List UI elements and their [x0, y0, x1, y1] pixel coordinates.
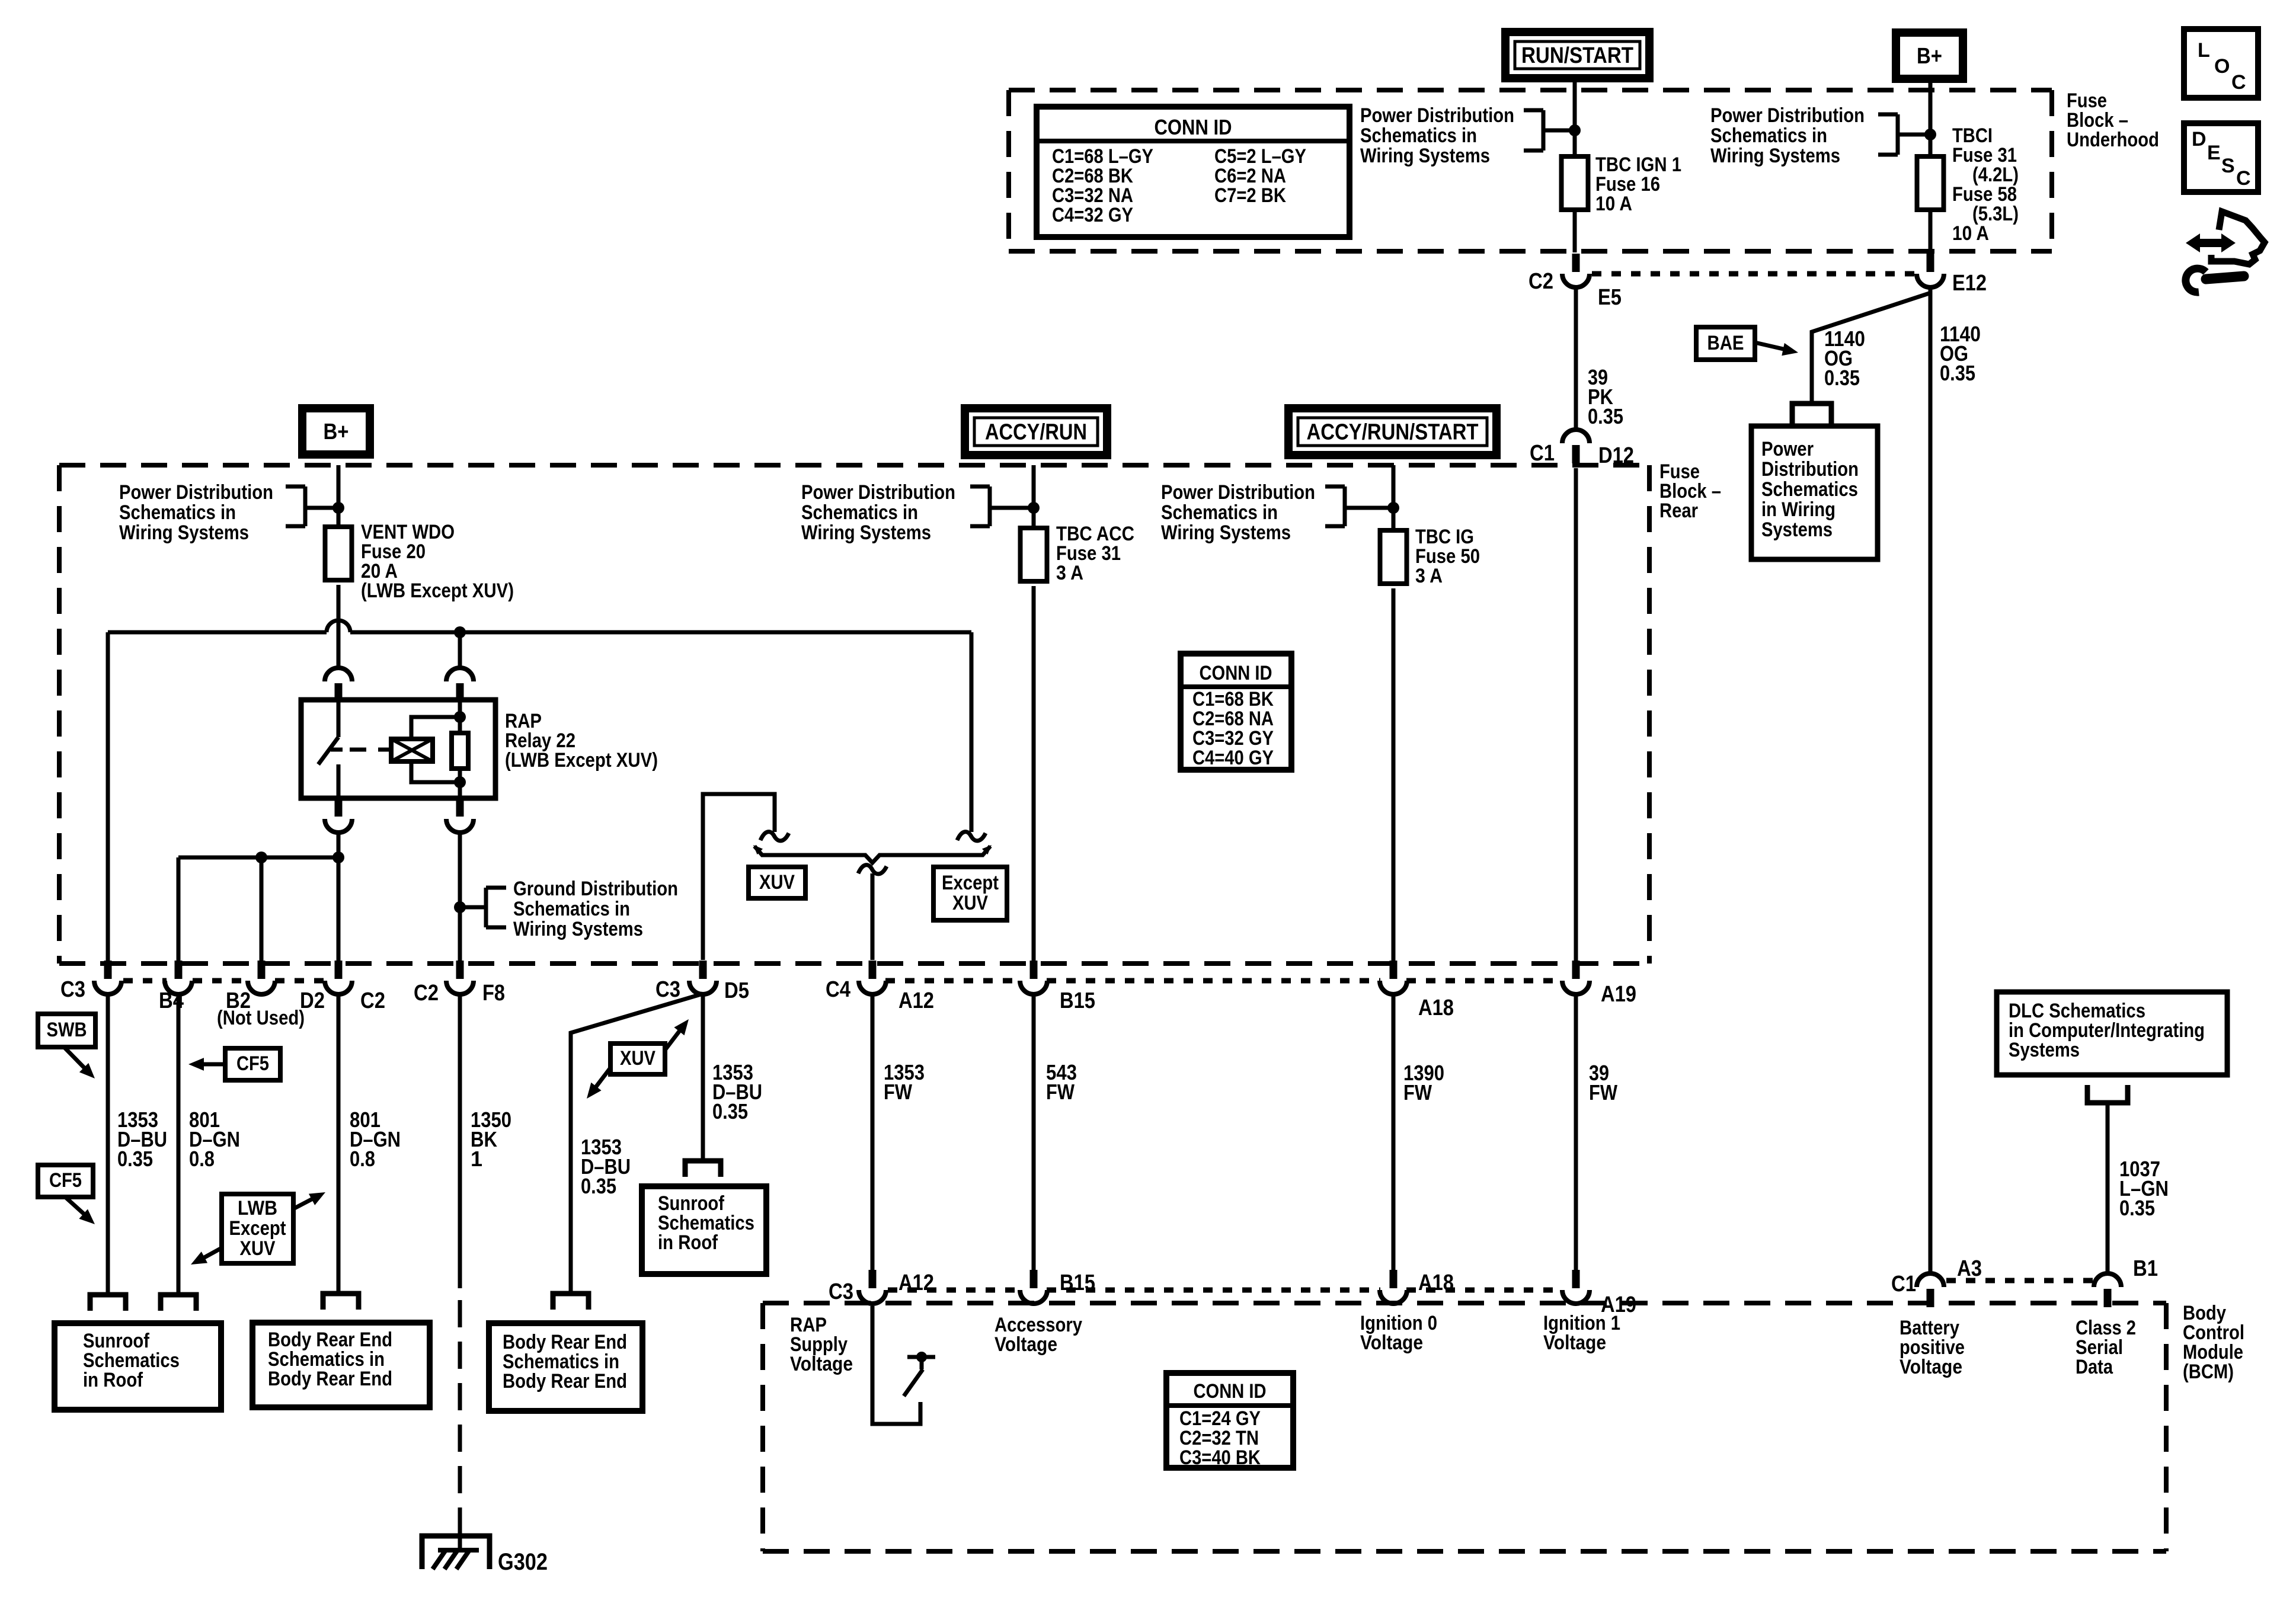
- wire ACCY/RUN/START col inside rear block: [1574, 468, 1578, 965]
- CONN ID table rear: [1181, 654, 1291, 770]
- connector bracket body rear end 2: [553, 1294, 589, 1310]
- ESI icon double arrow: [2186, 233, 2236, 252]
- relay coil top loop: [411, 717, 460, 739]
- svg-text:ACCY/RUN: ACCY/RUN: [985, 420, 1087, 445]
- svg-text:3 A: 3 A: [1056, 562, 1083, 584]
- svg-text:(LWB Except XUV): (LWB Except XUV): [505, 749, 658, 772]
- wire TBC IG fuse down to A18: [1392, 588, 1396, 965]
- label SWB box: [38, 1014, 95, 1047]
- connector row rear dotted line: [123, 978, 167, 984]
- box body rear end schematics 1: [252, 1323, 430, 1407]
- connector pin B15 row3: [1030, 1270, 1038, 1288]
- svg-text:Power Distribution: Power Distribution: [1360, 104, 1514, 127]
- svg-text:A18: A18: [1418, 1270, 1454, 1295]
- svg-text:Rear: Rear: [1659, 500, 1698, 522]
- svg-text:Body Rear End: Body Rear End: [503, 1370, 627, 1393]
- arrow LWB up right: [293, 1196, 318, 1209]
- DESC legend box: [2184, 123, 2258, 192]
- wire RUN/START down to fuse 16: [1573, 78, 1577, 156]
- connector pin B15 row2: [1030, 961, 1038, 979]
- svg-text:C4: C4: [826, 977, 850, 1002]
- relay switch: [337, 700, 341, 737]
- wire fuse16 to connector C2-E5: [1573, 210, 1577, 252]
- svg-text:B+: B+: [324, 420, 349, 444]
- svg-text:F8: F8: [482, 981, 505, 1006]
- fuse F50 TBC IG: [1380, 530, 1407, 584]
- hook xuv: [760, 832, 789, 841]
- connector row underhood dotted line: [1592, 271, 1914, 277]
- wire C3-B4 column down: [106, 632, 110, 965]
- svg-text:Wiring Systems: Wiring Systems: [1710, 145, 1840, 167]
- svg-text:XUV: XUV: [952, 892, 988, 914]
- svg-text:FW: FW: [1046, 1080, 1075, 1104]
- svg-text:0.35: 0.35: [712, 1099, 748, 1124]
- svg-text:Schematics in: Schematics in: [1360, 124, 1477, 147]
- svg-text:D5: D5: [724, 978, 749, 1003]
- svg-text:(Not Used): (Not Used): [217, 1007, 305, 1029]
- svg-text:Wiring Systems: Wiring Systems: [119, 521, 249, 544]
- label CF5 upper box: [225, 1048, 280, 1080]
- svg-text:Ground Distribution: Ground Distribution: [513, 878, 678, 900]
- svg-text:CONN ID: CONN ID: [1194, 1380, 1267, 1403]
- svg-text:Except: Except: [942, 872, 999, 894]
- connector E12: [1927, 254, 1934, 272]
- wire D2 branch down: [260, 857, 264, 965]
- svg-text:Schematics in: Schematics in: [1161, 501, 1278, 524]
- wire 1353 D-BU column A: [106, 994, 110, 1294]
- wire B15 row2 to row3: [1032, 994, 1036, 1270]
- bracket to ACCY/RUN/START wire: [1325, 485, 1345, 489]
- svg-text:Wiring Systems: Wiring Systems: [1161, 521, 1291, 544]
- svg-text:E12: E12: [1952, 271, 1987, 296]
- wire RAP switch: [872, 1306, 920, 1424]
- svg-text:C: C: [2236, 167, 2251, 190]
- box body rear end schematics 2: [489, 1323, 642, 1411]
- svg-text:Voltage: Voltage: [790, 1353, 853, 1375]
- wire except-xuv branch down: [970, 632, 974, 832]
- relay link dashed: [350, 748, 389, 752]
- box DLC schematics: [1997, 992, 2227, 1075]
- label Except XUV box: [933, 867, 1007, 920]
- svg-text:Distribution: Distribution: [1761, 458, 1859, 481]
- svg-text:Voltage: Voltage: [1900, 1356, 1962, 1378]
- wire 1037 L-GN: [2106, 1105, 2110, 1274]
- connector on power distribution box: [1792, 404, 1831, 426]
- connector bracket body rear end 1: [323, 1294, 359, 1310]
- RAP switch bar and dot: [907, 1355, 935, 1359]
- connector C1 pin D12: [1572, 445, 1580, 463]
- svg-text:0.8: 0.8: [189, 1147, 215, 1171]
- CONN ID table BCM: [1166, 1373, 1293, 1468]
- svg-text:C: C: [2231, 71, 2246, 94]
- svg-text:A19: A19: [1601, 982, 1636, 1007]
- BCM dashed outline: [763, 1301, 2166, 1305]
- wire TBC ACC fuse down to B15: [1032, 586, 1036, 965]
- arrow CF5 to B2 wire: [196, 1062, 225, 1067]
- svg-text:Schematics: Schematics: [1761, 478, 1858, 501]
- connector pin A19 row2: [1572, 961, 1580, 979]
- connector bracket sunroof 2: [685, 1161, 721, 1177]
- power label ACCY/RUN/START: [1288, 408, 1496, 455]
- relay top pin connectors: [335, 683, 343, 702]
- connector C2 pin E5: [1572, 254, 1580, 272]
- ESI icon wrench: [2186, 268, 2206, 292]
- label XUV with arrows: [610, 1044, 665, 1074]
- svg-text:C3: C3: [60, 977, 85, 1002]
- svg-text:Systems: Systems: [2009, 1039, 2080, 1061]
- hook except xuv: [957, 832, 986, 841]
- wire 39 PK 0.35: [1574, 287, 1578, 430]
- svg-text:BAE: BAE: [1707, 332, 1744, 354]
- svg-text:Wiring Systems: Wiring Systems: [801, 521, 931, 544]
- power label B+ rear: [302, 408, 370, 454]
- connector bracket sunroof wire A: [90, 1295, 126, 1311]
- svg-text:XUV: XUV: [240, 1237, 276, 1260]
- svg-text:A18: A18: [1418, 996, 1454, 1020]
- wire TBCI fuse to connector E12: [1929, 210, 1933, 252]
- wire B+ rear to vent wdo fuse: [337, 465, 341, 527]
- arrow SWB to wire: [64, 1047, 90, 1074]
- wire 1140 OG 0.35 to BCM: [1929, 287, 1933, 1273]
- svg-text:0.35: 0.35: [581, 1174, 616, 1198]
- connector bracket sunroof wire B: [161, 1295, 196, 1311]
- svg-text:C4=40 GY: C4=40 GY: [1192, 747, 1274, 769]
- svg-text:SWB: SWB: [47, 1019, 87, 1041]
- relay bottom pin connectors: [335, 798, 343, 817]
- svg-text:Voltage: Voltage: [994, 1333, 1057, 1356]
- CONN ID table underhood: [1037, 107, 1350, 237]
- connector row BCM dotted line: [888, 1288, 1021, 1293]
- LOC legend box: [2184, 29, 2258, 98]
- connector C3 pin D5: [699, 961, 707, 979]
- svg-text:XUV: XUV: [759, 871, 795, 894]
- wire ACCY/RUN to TBC ACC fuse: [1032, 465, 1036, 528]
- connector C2 pin F8: [456, 961, 464, 979]
- svg-text:Power Distribution: Power Distribution: [801, 481, 955, 504]
- wire coil branch down to relay: [458, 632, 462, 668]
- svg-text:Data: Data: [2076, 1356, 2113, 1378]
- box sunroof schematics in roof 2: [642, 1186, 766, 1274]
- svg-text:Systems: Systems: [1761, 518, 1833, 541]
- svg-text:FW: FW: [1589, 1080, 1617, 1105]
- svg-text:3 A: 3 A: [1415, 565, 1443, 587]
- box sunroof schematics in roof left: [55, 1323, 221, 1410]
- connector pin A18 row2: [1390, 961, 1398, 979]
- svg-text:(LWB Except XUV): (LWB Except XUV): [361, 580, 514, 602]
- svg-text:in Roof: in Roof: [83, 1369, 143, 1391]
- svg-text:Schematics in: Schematics in: [1710, 124, 1827, 147]
- fuse block rear dashed outline: [59, 463, 1649, 468]
- wire D5 to sunroof 2: [701, 994, 705, 1160]
- bracket to B+ rear wire: [286, 485, 305, 489]
- svg-text:Schematics in: Schematics in: [513, 898, 630, 920]
- svg-text:0.35: 0.35: [1588, 404, 1623, 428]
- ground symbol G302: [422, 1536, 490, 1569]
- fuse F16 TBC IGN 1: [1562, 156, 1588, 210]
- svg-text:D: D: [2192, 128, 2207, 151]
- svg-text:in Wiring: in Wiring: [1761, 498, 1835, 521]
- svg-text:C3: C3: [655, 977, 680, 1002]
- fuse F31/F58 TBCI: [1917, 156, 1944, 210]
- bracket to ACCY/RUN wire: [970, 485, 990, 489]
- svg-text:A3: A3: [1957, 1256, 1982, 1281]
- svg-text:0.35: 0.35: [2119, 1196, 2155, 1220]
- arrow LWB down left: [198, 1248, 222, 1261]
- svg-text:0.8: 0.8: [350, 1147, 375, 1171]
- connector pin A18 row3: [1390, 1270, 1398, 1288]
- wire C4 to RAP row3: [871, 994, 875, 1270]
- box power distribution schematics in wiring systems: [1751, 426, 1878, 559]
- svg-text:C3=40 BK: C3=40 BK: [1179, 1446, 1261, 1469]
- relay coil bottom loop: [411, 761, 460, 782]
- svg-text:10 A: 10 A: [1952, 222, 1989, 245]
- svg-text:0.35: 0.35: [1940, 361, 1975, 385]
- wire relay switch out: [337, 832, 341, 965]
- junction dot ground distribution: [454, 901, 466, 913]
- svg-text:E: E: [2207, 142, 2221, 164]
- svg-text:Schematics in: Schematics in: [801, 501, 918, 524]
- wire 1350 BK column E: [458, 994, 462, 1288]
- svg-text:G302: G302: [498, 1549, 548, 1575]
- ESI icon outline: [2211, 212, 2265, 264]
- label CF5 lower box: [38, 1165, 93, 1197]
- svg-text:Wiring Systems: Wiring Systems: [513, 918, 643, 940]
- svg-text:Voltage: Voltage: [1360, 1331, 1423, 1354]
- connector pin D2: [258, 961, 266, 979]
- RAP switch blade: [904, 1369, 923, 1396]
- svg-text:C4=32 GY: C4=32 GY: [1052, 204, 1133, 226]
- svg-text:1: 1: [471, 1147, 482, 1171]
- connector bracket below DLC: [2087, 1085, 2128, 1103]
- svg-text:B1: B1: [2133, 1256, 2158, 1281]
- label BAE with arrow: [1696, 327, 1755, 360]
- svg-text:Except: Except: [229, 1217, 286, 1240]
- xuv merge brace: [754, 846, 990, 863]
- wire 801 D-GN column D: [337, 994, 341, 1292]
- bracket to RUN/START wire: [1524, 108, 1543, 113]
- svg-text:Wiring Systems: Wiring Systems: [1360, 145, 1490, 167]
- arrow CF5 lower to wire: [65, 1197, 90, 1219]
- svg-text:S: S: [2221, 155, 2235, 177]
- svg-text:0.35: 0.35: [1824, 366, 1860, 390]
- svg-text:L: L: [2198, 39, 2210, 62]
- svg-text:CONN ID: CONN ID: [1200, 662, 1272, 684]
- wire A18 row2 to row3: [1392, 994, 1396, 1270]
- svg-text:Power Distribution: Power Distribution: [119, 481, 273, 504]
- svg-text:C1: C1: [1891, 1272, 1916, 1297]
- wire 801 D-GN column B: [177, 994, 181, 1294]
- junction dots lower horizontal: [255, 852, 267, 863]
- svg-text:A12: A12: [898, 1270, 934, 1295]
- connector C1 pin A3: [1927, 1289, 1934, 1307]
- wire merge to C4: [871, 873, 875, 960]
- svg-text:10 A: 10 A: [1595, 193, 1632, 215]
- connector pin B1: [2104, 1289, 2112, 1307]
- fuse block underhood dashed outline: [1009, 88, 2052, 92]
- dotted line A3 to B1: [1946, 1278, 2093, 1283]
- svg-text:Power Distribution: Power Distribution: [1710, 104, 1865, 127]
- connector pin A19 row3: [1572, 1270, 1580, 1288]
- power label ACCY/RUN: [965, 408, 1107, 455]
- label LWB Except XUV box: [222, 1194, 293, 1263]
- svg-text:B15: B15: [1060, 1270, 1095, 1295]
- svg-text:O: O: [2214, 55, 2230, 78]
- wire B2 branch down: [177, 857, 181, 965]
- svg-text:C3: C3: [829, 1279, 853, 1304]
- svg-text:Power: Power: [1761, 438, 1814, 460]
- wire xuv diagonal: [571, 994, 703, 1292]
- relay RAP box: [301, 700, 495, 798]
- svg-text:ACCY/RUN/START: ACCY/RUN/START: [1307, 420, 1479, 445]
- wire main horizontal from vent wdo: [108, 630, 327, 635]
- bracket ground distribution: [486, 886, 506, 890]
- svg-text:XUV: XUV: [620, 1047, 655, 1070]
- svg-text:CF5: CF5: [49, 1169, 82, 1192]
- svg-text:CF5: CF5: [236, 1052, 269, 1075]
- svg-text:in Roof: in Roof: [658, 1231, 718, 1254]
- hook below merge: [858, 865, 887, 874]
- wire ACCY/RUN/START to TBC IG fuse: [1392, 465, 1396, 530]
- svg-text:A12: A12: [898, 988, 934, 1013]
- connector pin B2: [175, 961, 183, 979]
- wire D5 L-branch: [703, 794, 775, 960]
- wire B+ down to fuse 31/58: [1929, 79, 1933, 156]
- fuse F20 VENT WDO: [325, 527, 352, 580]
- svg-text:LWB: LWB: [238, 1197, 277, 1219]
- svg-text:C2: C2: [414, 981, 439, 1006]
- svg-text:Underhood: Underhood: [2067, 129, 2159, 151]
- power label RUN/START: [1505, 32, 1649, 78]
- relay coil: [391, 739, 433, 761]
- svg-text:FW: FW: [884, 1080, 912, 1104]
- svg-text:B+: B+: [1917, 44, 1942, 69]
- wire BAE branch diagonal: [1812, 293, 1929, 401]
- svg-text:Body Rear End: Body Rear End: [268, 1368, 392, 1390]
- wire relay coil return down: [458, 832, 462, 965]
- wire lower horizontal: [178, 856, 338, 860]
- power label B+ underhood: [1896, 33, 1963, 79]
- svg-text:C1: C1: [1530, 441, 1555, 466]
- bracket to B+ wire: [1878, 113, 1898, 117]
- svg-text:Schematics in: Schematics in: [119, 501, 236, 524]
- connector C3 pin A12 row3: [869, 1270, 877, 1288]
- wire A19 row2 to row3: [1574, 994, 1578, 1270]
- fuse F31 TBC ACC: [1021, 528, 1047, 581]
- svg-text:RUN/START: RUN/START: [1521, 43, 1633, 68]
- wire vent wdo fuse to relay: [337, 585, 341, 668]
- label XUV merge box: [749, 867, 805, 898]
- relay resistor: [458, 700, 462, 733]
- svg-text:CONN ID: CONN ID: [1155, 115, 1232, 139]
- junction dot at relay coil branch: [454, 626, 466, 638]
- svg-text:FW: FW: [1403, 1080, 1432, 1105]
- svg-text:C7=2 BK: C7=2 BK: [1214, 184, 1286, 207]
- svg-text:B15: B15: [1060, 988, 1095, 1013]
- svg-text:C2: C2: [1528, 269, 1553, 294]
- connector C4 pin A12: [869, 961, 877, 979]
- svg-text:E5: E5: [1598, 285, 1622, 310]
- svg-text:(BCM): (BCM): [2183, 1361, 2234, 1383]
- connector C3 pin B4: [104, 961, 112, 979]
- svg-text:0.35: 0.35: [117, 1147, 153, 1171]
- svg-text:Voltage: Voltage: [1543, 1331, 1606, 1354]
- connector pin C2 row2: [335, 961, 343, 979]
- svg-text:Power Distribution: Power Distribution: [1161, 481, 1315, 504]
- svg-text:C2: C2: [360, 988, 385, 1013]
